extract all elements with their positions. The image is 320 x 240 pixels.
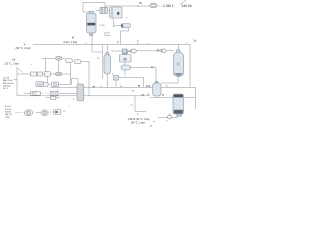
svg-text:MP st 8 t/h: MP st 8 t/h [3,82,14,85]
svg-text:(1 bar): (1 bar) [104,34,110,37]
svg-text:7,2 t/h: 7,2 t/h [99,24,106,27]
svg-text:(126 t, 1 bar): (126 t, 1 bar) [64,41,78,44]
svg-text:N2 t/h: N2 t/h [5,110,12,113]
svg-text:NH3 2 t/h: NH3 2 t/h [3,79,13,82]
svg-text:(10 bar): (10 bar) [3,84,11,87]
svg-text:90 °C: 90 °C [3,88,9,90]
svg-text:140 t/h: 140 t/h [182,4,192,8]
svg-text:1 bar: 1 bar [5,116,10,119]
svg-text:(40 °C, 1 bar): (40 °C, 1 bar) [131,122,145,125]
svg-text:(25 °C, 1 bar): (25 °C, 1 bar) [5,62,20,65]
svg-text:Air: Air [12,59,15,62]
svg-text:4,7 t/h: 4,7 t/h [3,77,10,80]
svg-text:(96 °C, 1 bar): (96 °C, 1 bar) [15,47,30,50]
svg-text:1.342 t;: 1.342 t; [163,4,174,8]
svg-text:1,99 t/h (40 °C, 1 bar): 1,99 t/h (40 °C, 1 bar) [128,118,150,121]
svg-text:2,1 t/h: 2,1 t/h [5,108,12,111]
